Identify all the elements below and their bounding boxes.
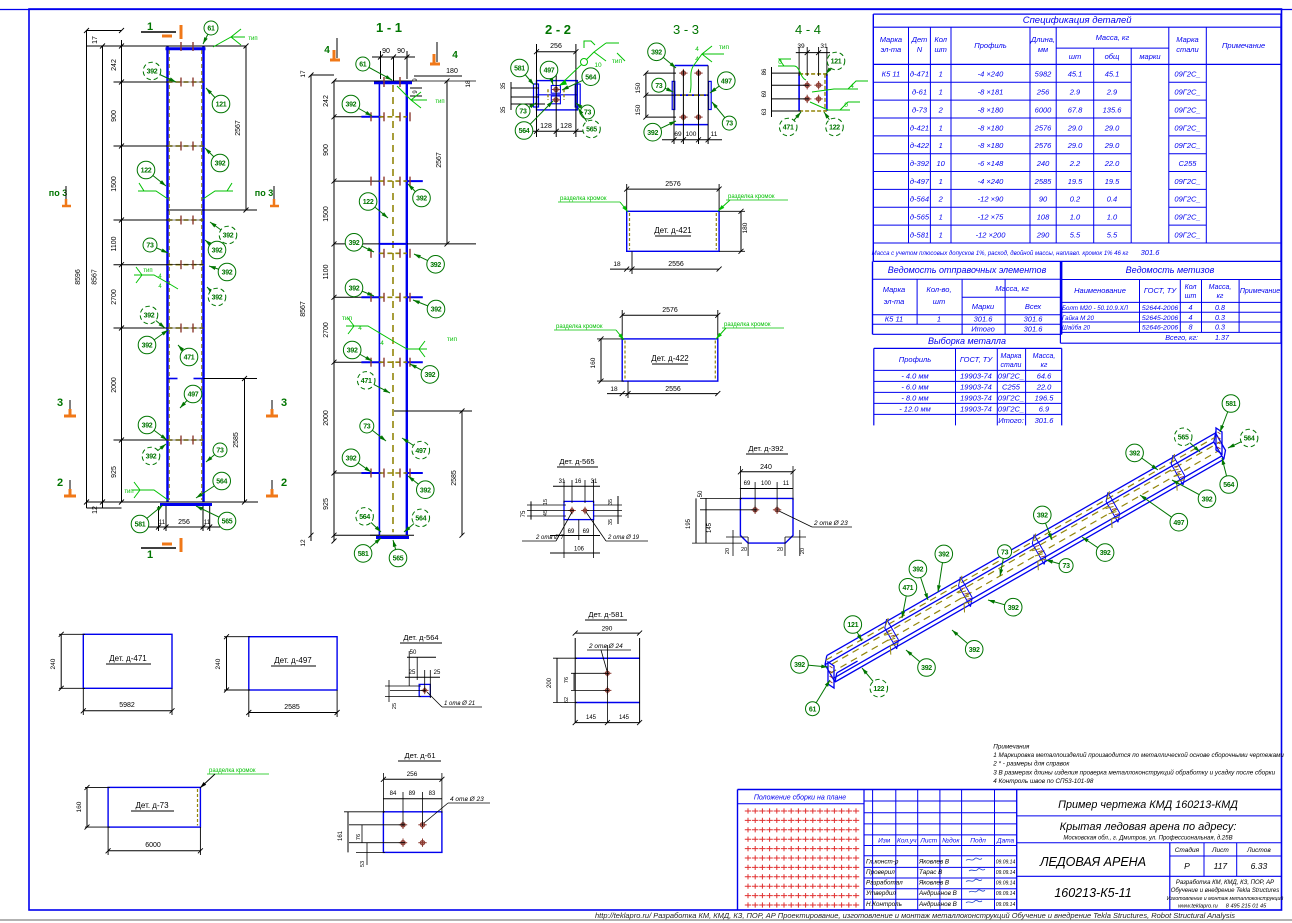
svg-text:35: 35 [501,82,507,89]
svg-text:3: 3 [281,397,287,409]
section 2-2 marker 73 [576,103,595,119]
svg-text:392: 392 [651,49,662,56]
svg-text:09Г2С_: 09Г2С_ [1174,123,1200,132]
section 2-2 body [534,81,581,110]
svg-text:150: 150 [635,82,642,93]
svg-text:Изготовление и монтаж металлок: Изготовление и монтаж металлоконструкций [1167,895,1284,902]
svg-text:256: 256 [178,519,190,526]
svg-text:900: 900 [111,110,118,122]
svg-text:20: 20 [800,548,806,554]
svg-text:- 4.0 мм: - 4.0 мм [901,372,928,381]
svg-text:564: 564 [415,516,426,523]
svg-text:Масса,: Масса, [1033,353,1056,360]
svg-text:10: 10 [937,159,946,168]
svg-text:471: 471 [783,125,794,132]
svg-text:эл-та: эл-та [881,45,902,54]
svg-text:д-61: д-61 [912,88,927,97]
svg-text:392: 392 [212,295,223,302]
svg-text:195: 195 [686,518,692,529]
isometric marker 392 [988,598,1022,616]
svg-text:12: 12 [92,506,99,514]
section 3-3 marker 73 [712,102,736,130]
svg-text:145: 145 [707,522,713,533]
svg-text:17: 17 [300,70,307,78]
svg-text:1: 1 [939,123,943,132]
svg-text:392: 392 [346,455,357,462]
svg-text:2.9: 2.9 [1106,88,1118,97]
isometric marker 564 [1220,458,1238,493]
view 1-1 top plate [372,77,414,87]
svg-text:240: 240 [215,658,222,669]
svg-text:1500: 1500 [111,176,118,192]
svg-text:8596: 8596 [75,269,82,285]
svg-text:564: 564 [585,74,596,81]
svg-text:2 - 2: 2 - 2 [545,22,571,37]
svg-text:61: 61 [809,706,817,713]
svg-text:565: 565 [393,556,404,563]
svg-text:8: 8 [1189,323,1193,332]
svg-text:Примечания: Примечания [993,744,1030,751]
svg-text:2.2: 2.2 [1069,159,1081,168]
svg-text:52646-2006: 52646-2006 [1142,325,1179,332]
svg-text:0.8: 0.8 [1215,303,1225,312]
staff table Изм Кол.уч Лист [864,790,1017,911]
company info block [1167,880,1284,910]
svg-text:89: 89 [409,791,416,797]
svg-text:565: 565 [586,127,597,134]
svg-text:2556: 2556 [668,261,684,268]
svg-text:шт: шт [933,297,945,306]
svg-text:Стадия: Стадия [1175,846,1200,854]
weld flags at по 3 [138,183,233,199]
svg-text:Подп: Подп [970,837,986,845]
view 1-1 markers 4 top [324,38,458,64]
svg-text:тип: тип [447,336,458,343]
svg-text:2: 2 [281,477,287,489]
svg-text:5.5: 5.5 [1070,230,1081,239]
marker circle 392 [138,330,168,354]
svg-text:392: 392 [913,567,924,574]
weld symbol top right [213,29,258,47]
svg-text:392: 392 [938,552,949,559]
svg-text:http://teklapro.ru/ Разработк: http://teklapro.ru/ Разработка КМ, КМД, … [595,912,1236,920]
svg-text:09Г2С_: 09Г2С_ [1174,177,1200,186]
svg-text:61: 61 [207,26,215,33]
svg-text:4 Контроль швов по СП53-101-9: 4 Контроль швов по СП53-101-98 [993,778,1094,785]
svg-text:2567: 2567 [436,152,443,168]
view 1-1 marker 564 [404,509,430,532]
svg-text:1: 1 [939,141,943,150]
svg-text:392: 392 [146,454,157,461]
section 4-4 body [799,74,827,111]
view 1-1 stiffener at 117 [361,112,410,121]
svg-text:52644-2006: 52644-2006 [1142,305,1179,312]
view 1-1 marker 392 [413,300,445,318]
svg-text:19903-74: 19903-74 [960,405,992,414]
svg-text:497: 497 [721,78,732,85]
svg-text:Масса, кг: Масса, кг [995,284,1029,293]
marker circle 565 [196,506,236,530]
svg-text:ЛЕДОВАЯ АРЕНА: ЛЕДОВАЯ АРЕНА [1039,855,1146,869]
svg-text:75: 75 [521,510,527,517]
svg-text:45.1: 45.1 [1068,70,1083,79]
svg-text:Кол-во,: Кол-во, [926,285,951,294]
svg-text:1: 1 [939,213,943,222]
section 3-3 marker 392 [644,121,676,141]
svg-text:по 3: по 3 [49,188,67,198]
table Выборка металла [874,336,1062,425]
svg-text:2576: 2576 [1034,123,1053,132]
isometric marker 564 [1228,429,1258,448]
svg-text:09Г2С_: 09Г2С_ [1174,230,1200,239]
svg-text:4: 4 [695,56,699,63]
svg-text:242: 242 [111,59,118,71]
svg-text:Тарас В: Тарас В [919,869,942,876]
svg-text:301.6: 301.6 [1024,315,1044,324]
view 1-1 marker 581 [354,538,381,562]
svg-text:29.0: 29.0 [1067,141,1083,150]
svg-text:д-497: д-497 [910,177,930,186]
svg-text:-4 ×240: -4 ×240 [978,177,1004,186]
svg-text:200: 200 [547,677,553,688]
svg-text:121: 121 [847,622,858,629]
svg-text:90: 90 [382,48,390,55]
svg-text:Разработал: Разработал [866,879,903,887]
view 1-1 marker 122 [359,193,388,218]
isometric marker 61 [806,680,831,716]
svg-text:565: 565 [1178,434,1189,441]
svg-text:180: 180 [446,68,458,75]
svg-text:11: 11 [159,520,166,526]
title area texts [1017,799,1281,900]
view 1-1 column body [379,81,406,535]
svg-text:Изм: Изм [878,838,891,845]
svg-text:240: 240 [760,464,772,471]
svg-text:д-565: д-565 [910,213,930,222]
svg-text:6000: 6000 [1035,105,1053,114]
svg-text:Марки: Марки [972,302,995,311]
svg-text:256: 256 [407,771,418,778]
view 1-1 marker 392 [345,234,374,253]
svg-text:тип: тип [342,315,353,322]
svg-text:392: 392 [349,286,360,293]
svg-text:К5 11: К5 11 [885,315,903,324]
section 3-3 marker 392 [648,43,676,68]
svg-text:Андрианов В: Андрианов В [918,900,957,908]
view 1-1 marker 497 [402,438,430,459]
isometric marker 73 [998,545,1012,576]
svg-text:Наименование: Наименование [1074,286,1126,295]
view 1-1 marker 73 [360,419,386,441]
svg-text:0: 0 [844,102,848,109]
svg-text:256: 256 [550,43,562,50]
detail д-73 разделка кромок label [200,768,269,788]
isometric marker 121 [844,616,862,641]
svg-text:242: 242 [323,95,330,107]
svg-text:1: 1 [939,230,943,239]
svg-text:Марка: Марка [1176,35,1198,44]
svg-text:разделка кромок: разделка кромок [724,322,771,328]
svg-text:45: 45 [543,510,549,516]
isometric marker 392 [791,656,828,674]
svg-text:1: 1 [147,549,153,561]
detail д-392 [686,444,852,556]
section markers 2 2 left right [57,477,76,496]
svg-text:83: 83 [429,791,436,797]
svg-text:50: 50 [410,650,417,656]
svg-text:-12 ×75: -12 ×75 [978,213,1004,222]
svg-text:31: 31 [591,479,598,485]
svg-text:925: 925 [111,466,118,478]
svg-text:8567: 8567 [300,301,307,317]
svg-text:29.0: 29.0 [1104,141,1120,150]
section 2-2 marker 581 [511,59,534,85]
svg-text:135.6: 135.6 [1103,105,1123,114]
svg-text:2585: 2585 [1034,177,1053,186]
svg-text:4: 4 [380,340,384,347]
svg-text:1: 1 [939,88,943,97]
svg-text:Марка: Марка [883,285,905,294]
svg-text:09Г2С_: 09Г2С_ [998,405,1024,414]
svg-text:2000: 2000 [111,377,118,393]
svg-text:Дет. д-73: Дет. д-73 [135,801,169,810]
svg-text:69: 69 [583,529,590,535]
svg-text:2700: 2700 [111,289,118,305]
svg-text:392: 392 [349,240,360,247]
svg-text:разделка кромок: разделка кромок [556,324,603,330]
section 2-2 dims 128 128 [530,123,583,134]
svg-text:Дет. д-497: Дет. д-497 [274,656,312,665]
svg-text:Разработка КМ, КМД, КЗ, ПОР, А: Разработка КМ, КМД, КЗ, ПОР, АР [1176,880,1274,886]
svg-text:53: 53 [360,861,366,867]
svg-text:1.37: 1.37 [1215,333,1230,342]
section marker 1 bottom [141,538,181,561]
svg-text:Масса, кг: Масса, кг [1096,33,1130,42]
svg-text:Дет. д-392: Дет. д-392 [748,444,783,453]
isometric marker 73 [1046,559,1073,573]
svg-text:90: 90 [397,48,405,55]
svg-text:84: 84 [390,791,397,797]
svg-text:Ведомость метизов: Ведомость метизов [1126,265,1215,275]
svg-text:5982: 5982 [1035,70,1053,79]
svg-text:100: 100 [686,131,697,138]
marker circle 121 [206,88,230,113]
svg-text:1100: 1100 [323,264,330,279]
svg-text:Дата: Дата [996,838,1015,845]
svg-text:564: 564 [359,514,370,521]
section 2-2 dims 35 35 left [501,82,545,113]
section 3-3 weld symbol 4-4 [690,44,730,93]
svg-text:Примечание: Примечание [1222,41,1265,50]
svg-text:1 отв Ø 21: 1 отв Ø 21 [444,701,475,707]
isometric marker 392 [1082,537,1114,561]
svg-text:Обучение и внедрение Tekla Str: Обучение и внедрение Tekla Structures [1171,888,1279,894]
marker circle 471 [178,345,198,366]
section 2-2 marker 564 [515,101,553,139]
svg-text:108: 108 [1037,213,1050,222]
isometric marker 392 [1034,506,1053,540]
marker circle 392 [143,62,176,82]
table Ведомость отправочных элементов [873,261,1062,334]
isometric end plate bottom [828,662,834,688]
svg-text:С255: С255 [1002,383,1021,392]
svg-text:69: 69 [744,481,751,487]
svg-text:25: 25 [434,670,441,676]
svg-text:09Г2С_: 09Г2С_ [1174,88,1200,97]
svg-text:Масса с учетом плюсовых допуск: Масса с учетом плюсовых допусков 1%, рас… [872,250,1129,257]
svg-text:Московская обл., г. Дмитров, у: Московская обл., г. Дмитров, ул. Професс… [1063,836,1232,842]
svg-text:392: 392 [346,102,357,109]
view 1-1 stiffener at 181 [371,177,423,186]
svg-text:2567: 2567 [235,120,242,136]
svg-text:2576: 2576 [662,307,678,314]
svg-text:69: 69 [568,529,575,535]
stiffener row д-392 at y220 [114,216,204,225]
marker circle 392 [205,240,226,259]
svg-text:73: 73 [726,121,734,128]
svg-text:19903-74: 19903-74 [960,372,992,381]
svg-text:17: 17 [92,36,99,44]
svg-text:392: 392 [1008,605,1019,612]
detail д-565 [521,457,648,558]
stiffener row д-392 at y264.7 [114,260,204,269]
isometric marker 392 [909,560,928,600]
isometric marker 471 [899,579,917,619]
svg-text:Шайба 20: Шайба 20 [1062,325,1091,332]
svg-text:497: 497 [544,68,555,75]
svg-text:д-421: д-421 [910,123,929,132]
svg-text:1: 1 [939,70,943,79]
svg-text:6.33: 6.33 [1251,861,1268,871]
svg-text:62: 62 [564,697,570,703]
detail д-497 plate [215,634,340,717]
svg-text:256: 256 [1036,88,1050,97]
svg-text:121: 121 [216,102,227,109]
svg-text:Крытая ледовая арена по адресу: Крытая ледовая арена по адресу: [1060,821,1237,833]
svg-text:Марка: Марка [1001,353,1022,360]
svg-text:- 6.0 мм: - 6.0 мм [901,383,928,392]
svg-text:1: 1 [939,177,943,186]
svg-text:73: 73 [1001,549,1009,556]
svg-text:Выборка металла: Выборка металла [928,336,1006,346]
svg-text:76: 76 [564,677,570,683]
svg-text:106: 106 [574,547,585,553]
svg-text:2585: 2585 [284,704,300,711]
view 1-1 marker 392 [410,364,439,383]
svg-text:К5 11: К5 11 [882,70,900,79]
svg-text:392: 392 [144,313,155,320]
isometric marker 392 [1126,444,1158,470]
svg-text:3: 3 [57,397,63,409]
svg-text:кг: кг [1041,362,1048,369]
svg-text:шт: шт [1185,293,1197,300]
isometric marker 122 [862,668,888,697]
svg-text:Итого: Итого [971,325,995,334]
svg-text:1 Маркировка металлоизделий п: 1 Маркировка металлоизделий производится… [993,751,1284,759]
svg-text:-8 ×180: -8 ×180 [978,123,1004,132]
view 1-1 marker 392 [342,95,372,116]
stiffener row д-392 at y82 [114,78,204,87]
svg-text:31: 31 [820,43,828,50]
section 2-2 title [545,22,571,37]
svg-text:19903-74: 19903-74 [960,394,992,403]
svg-text:2700: 2700 [323,322,330,338]
svg-text:09.09.14: 09.09.14 [996,881,1016,887]
marker circle 564 [196,472,231,498]
svg-text:122: 122 [141,168,152,175]
svg-text:Всех: Всех [1025,302,1042,311]
svg-text:392: 392 [1037,513,1048,520]
svg-text:29.0: 29.0 [1104,123,1120,132]
dimension chain left 17-242-900-1500-1100-2700-2000-925 [75,28,124,514]
svg-text:д-564: д-564 [910,195,929,204]
svg-text:18: 18 [610,386,618,393]
svg-text:581: 581 [1226,401,1237,408]
svg-text:497: 497 [1173,520,1184,527]
svg-text:4: 4 [1189,313,1193,322]
svg-text:д-422: д-422 [910,141,930,150]
svg-text:19.5: 19.5 [1105,177,1120,186]
marker circle 392 [138,416,167,440]
column base plate д-581 [87,502,259,505]
view 1-1 dim 2585 right [394,409,472,538]
section 4-4 marker 471 [779,112,801,136]
svg-text:разделка кромок: разделка кромок [560,196,607,202]
marker circle 392 [140,306,165,328]
stiffener row д-392 at y328 [114,324,204,333]
svg-text:4: 4 [358,325,362,332]
detail д-471 plate [50,632,175,715]
svg-text:09.09.14: 09.09.14 [996,859,1016,865]
svg-text:4: 4 [850,83,854,90]
svg-text:160: 160 [76,801,83,812]
svg-text:25: 25 [409,670,416,676]
svg-text:52645-2006: 52645-2006 [1142,315,1179,322]
svg-text:N: N [917,45,923,54]
svg-text:18: 18 [613,261,621,268]
view 1-1 marker 565 [389,540,407,567]
svg-text:73: 73 [1063,563,1071,570]
svg-text:35: 35 [608,499,614,505]
svg-text:д-471: д-471 [910,70,929,79]
svg-text:392: 392 [416,196,427,203]
svg-text:564: 564 [1244,436,1255,443]
svg-text:0.4: 0.4 [1107,195,1117,204]
svg-text:161: 161 [338,830,344,841]
svg-text:145: 145 [619,715,630,721]
svg-text:6000: 6000 [145,842,161,849]
svg-text:4: 4 [452,50,458,61]
svg-text:стали: стали [1001,362,1022,369]
svg-text:11: 11 [783,481,790,487]
svg-text:497: 497 [188,392,199,399]
svg-text:разделка кромок: разделка кромок [728,194,775,200]
svg-text:кг: кг [1217,293,1224,300]
svg-text:Дет. д-422: Дет. д-422 [651,354,689,363]
isometric marker 497 [1140,495,1188,531]
svg-text:50: 50 [698,490,704,497]
isometric marker 581 [1220,395,1240,432]
view 1-1 marker 61 [356,57,392,80]
svg-text:565: 565 [222,519,233,526]
svg-text:76: 76 [356,834,362,840]
svg-text:73: 73 [363,424,371,431]
svg-text:Дет. д-581: Дет. д-581 [588,610,623,619]
view 1-1 marker 392 [345,279,374,297]
svg-text:128: 128 [560,123,572,130]
svg-text:Яковлев В: Яковлев В [918,858,949,865]
svg-text:Листов: Листов [1246,847,1271,854]
